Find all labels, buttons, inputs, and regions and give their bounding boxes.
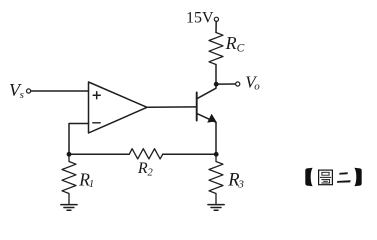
node Vs input terminal <box>27 89 31 93</box>
node 15V supply terminal <box>214 17 218 21</box>
op-amp - pin marker <box>93 122 100 124</box>
bracket left of figure label <box>305 168 312 187</box>
transistor Q1 emitter arrowhead <box>207 114 216 123</box>
svg-text:s: s <box>20 89 24 101</box>
bracket right of figure label <box>354 168 361 187</box>
transistor Q1 base bar <box>196 93 198 121</box>
op-amp + pin marker <box>93 92 100 99</box>
svg-text:3: 3 <box>237 178 244 190</box>
op-amp U1 <box>89 82 148 133</box>
ground below R1 <box>61 205 77 211</box>
svg-text:o: o <box>254 81 260 93</box>
svg-text:2: 2 <box>148 167 154 178</box>
svg-text:1: 1 <box>89 179 94 190</box>
wire op-amp - input feedback <box>69 124 89 155</box>
svg-text:15V: 15V <box>186 10 214 27</box>
transistor Q1 collector <box>197 84 216 99</box>
node junction dot at collector/Vo <box>214 82 219 87</box>
character Tu inner strokes <box>320 172 331 183</box>
wire 15V to Rc <box>215 22 217 33</box>
resistor R3 <box>209 154 223 204</box>
wire Vs to op-amp + input <box>31 90 89 92</box>
node junction dot left (R1/R2/feedback) <box>67 152 72 157</box>
svg-text:R: R <box>225 33 237 53</box>
wire left node to R2 <box>69 153 129 155</box>
character Tu (figure) outer box <box>319 170 333 185</box>
wire Rc to collector node <box>215 65 217 85</box>
node junction dot right (R2/R3/emitter) <box>214 152 219 157</box>
wire emitter down to node <box>215 122 217 154</box>
transistor Q1 emitter <box>197 113 216 122</box>
wire op-amp output to transistor base <box>147 106 197 108</box>
character Er (two) strokes <box>339 172 348 174</box>
resistor RC <box>209 33 223 65</box>
wire R2 to right node <box>163 153 216 155</box>
wire node to Vo terminal <box>218 83 236 85</box>
resistor R1 <box>62 154 76 204</box>
node Vo output terminal <box>236 82 240 86</box>
ground below R3 <box>208 205 224 211</box>
svg-text:C: C <box>237 43 245 55</box>
svg-text:R: R <box>137 160 148 177</box>
resistor R2 <box>129 149 163 159</box>
